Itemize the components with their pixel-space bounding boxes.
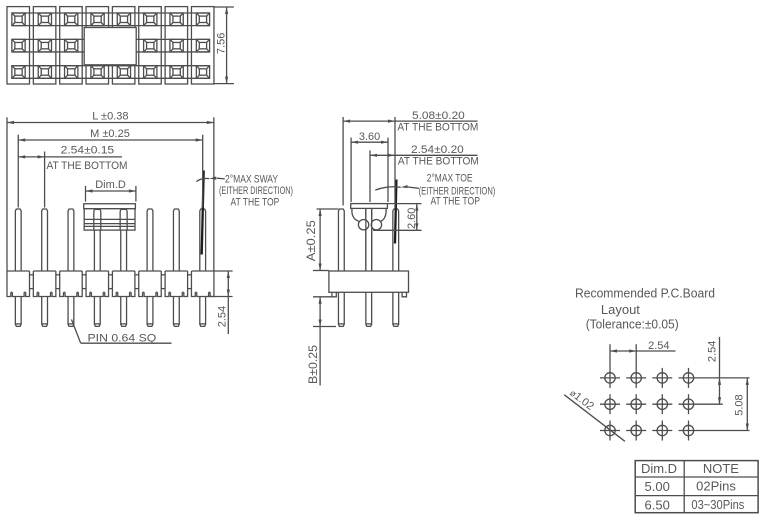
svg-text:Layout: Layout (601, 302, 640, 317)
svg-text:2.54±0.20: 2.54±0.20 (411, 144, 464, 156)
svg-text:6.50: 6.50 (645, 497, 670, 512)
svg-text:2.54±0.15: 2.54±0.15 (61, 144, 115, 156)
svg-text:7.56: 7.56 (216, 33, 228, 54)
svg-text:2.54: 2.54 (217, 306, 229, 327)
svg-text:Dim.D: Dim.D (641, 461, 677, 476)
svg-text:2°MAX SWAY: 2°MAX SWAY (225, 173, 279, 185)
svg-text:Recommended P.C.Board: Recommended P.C.Board (575, 285, 715, 300)
svg-text:2.54: 2.54 (648, 340, 669, 352)
svg-text:2°MAX TOE: 2°MAX TOE (427, 173, 473, 185)
svg-text:AT THE BOTTOM: AT THE BOTTOM (397, 122, 478, 134)
svg-text:AT THE TOP: AT THE TOP (430, 196, 480, 208)
svg-text:AT THE BOTTOM: AT THE BOTTOM (398, 156, 479, 168)
svg-text:(EITHER DIRECTION): (EITHER DIRECTION) (219, 185, 293, 197)
svg-text:M ±0.25: M ±0.25 (90, 128, 130, 140)
svg-text:3.60: 3.60 (359, 131, 380, 143)
svg-text:L ±0.38: L ±0.38 (92, 110, 128, 122)
svg-text:(Tolerance:±0.05): (Tolerance:±0.05) (586, 316, 679, 331)
svg-text:2.60: 2.60 (406, 208, 418, 229)
svg-text:PIN 0.64 SQ: PIN 0.64 SQ (88, 333, 157, 345)
svg-text:03~30Pins: 03~30Pins (691, 497, 744, 512)
svg-text:AT THE TOP: AT THE TOP (231, 197, 280, 209)
svg-text:NOTE: NOTE (703, 461, 739, 476)
svg-text:AT THE BOTTOM: AT THE BOTTOM (47, 160, 128, 172)
svg-text:5.00: 5.00 (645, 479, 670, 494)
svg-text:02Pins: 02Pins (696, 479, 736, 494)
svg-text:5.08±0.20: 5.08±0.20 (412, 110, 465, 122)
svg-text:A±0.25: A±0.25 (304, 220, 318, 261)
svg-text:2.54: 2.54 (707, 341, 719, 362)
svg-text:B±0.25: B±0.25 (306, 345, 320, 384)
svg-text:5.08: 5.08 (734, 394, 746, 415)
svg-text:Dim.D: Dim.D (95, 179, 126, 191)
